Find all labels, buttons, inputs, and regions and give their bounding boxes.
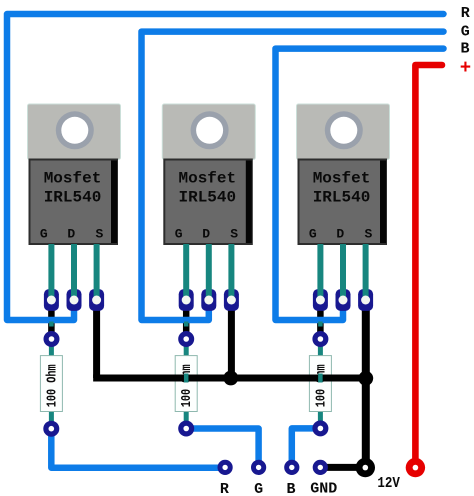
mosfet Q3 IRL540 [297,104,390,244]
pin M2 G [183,244,189,300]
resistor lead over bus R3 [318,374,323,383]
round pad R1 bottom [43,421,59,437]
svg-text:B: B [460,40,469,57]
hole pad M2 D [204,296,213,305]
pad M1 pin D [67,289,82,311]
resistor lead fleck over blue M1 [49,322,54,327]
hole pad M1 G [47,296,56,305]
wire blue G: top rail to M2 drain [142,32,444,320]
svg-text:G: G [40,227,48,242]
wire black source M3 down to 12V ground terminal [362,300,370,468]
svg-text:Mosfet: Mosfet [44,170,102,188]
svg-text:G: G [309,227,317,242]
Q3 package body [299,160,387,245]
round pad R3 bottom [312,420,328,436]
junction ground bus / M3 source [358,371,373,386]
pad M2 pin S [224,289,239,311]
svg-text:R: R [461,5,470,22]
round pad R3 top [312,331,328,347]
Q2 body edge stripe [246,161,252,244]
terminal 12V ground [356,458,375,477]
svg-text:D: D [67,227,75,242]
pin M3 D [340,244,346,300]
pin M2 D [206,244,212,300]
mosfet Q2 IRL540 [162,104,255,244]
svg-text:12V: 12V [377,475,400,492]
svg-text:GND: GND [310,481,337,496]
resistor lead fleck over blue M2 [184,322,189,327]
Q1 mounting hole [56,111,94,149]
hole pad M3 G [316,296,325,305]
svg-text:G: G [175,227,183,242]
round pad R2 bottom [178,421,194,437]
svg-text:Mosfet: Mosfet [178,170,236,188]
wire red +12V [415,65,442,468]
terminal R [218,458,426,477]
svg-text:100 Ohm: 100 Ohm [179,364,195,407]
svg-text:+: + [460,57,471,79]
pin M3 S [363,244,369,300]
wire ground bus [93,375,366,382]
wire blue G gate: resistor R2 to G terminal [186,429,258,468]
mosfet Q1 IRL540 [28,104,121,244]
svg-text:D: D [202,227,210,242]
svg-text:B: B [286,481,295,496]
svg-text:IRL540: IRL540 [178,188,236,206]
svg-text:100 Ohm: 100 Ohm [44,364,60,407]
resistor R1 [40,332,62,434]
terminal GND [313,460,328,475]
wire blue B gate: resistor R3 to B terminal [292,428,321,467]
Q2 package body [164,160,252,245]
pad M3 pin D [336,289,351,311]
pin M1 G [48,244,54,300]
Q3 metal tab [297,104,390,160]
wire black gate stub M3 [317,300,324,339]
wire black gate stub M2 [183,300,190,339]
hole pad M1 D [70,296,79,305]
wire black source M1 to ground bus [93,300,100,378]
Q1 metal tab [28,104,121,160]
Q3 body edge stripe [380,161,386,244]
Q1 body edge stripe [111,161,117,244]
wire black GND terminal to 12V ground [320,464,365,471]
svg-text:S: S [230,227,238,242]
svg-text:D: D [336,227,344,242]
svg-text:S: S [364,227,372,242]
pad M2 pin D [201,289,216,311]
svg-text:R: R [220,481,229,496]
terminal G [251,460,266,475]
wire black gate stub M1 (pad G to resistor R1) [51,300,320,339]
svg-text:G: G [461,24,470,41]
svg-text:100 Ohm: 100 Ohm [313,364,329,407]
hole pad M3 S [361,296,370,305]
svg-text:IRL540: IRL540 [44,188,102,206]
pad M3 pin S [358,289,373,311]
pad M2 pin G [179,289,194,311]
svg-text:S: S [95,227,103,242]
Q1 package body [30,160,118,245]
pad M1 pin G [44,289,373,311]
pin M2 S [228,244,234,300]
wire black source M2 to ground bus [228,300,235,378]
Q2 mounting hole [191,111,229,149]
Q2 metal tab [162,104,255,160]
svg-text:IRL540: IRL540 [313,188,371,206]
round pad R1 top [43,331,328,437]
resistor lead over bus R2 [184,374,189,383]
terminal +12V [406,458,425,477]
pin M3 G [317,244,323,300]
pin M1 S [94,244,100,300]
pin M1 D [71,244,77,300]
Q3 mounting hole [325,111,363,149]
wire blue R gate: resistor R1 to R terminal [51,429,225,468]
round pad R2 top [178,331,194,347]
hole pad M3 D [339,296,348,305]
junction ground bus / M2 source [223,371,238,386]
terminal B [284,460,299,475]
resistor R3 [309,332,331,434]
wire blue B: top rail to M3 drain [276,49,444,320]
resistor R2 [175,332,197,434]
svg-text:Mosfet: Mosfet [313,170,371,188]
pad M1 pin S [89,289,104,311]
pad M3 pin G [313,289,328,311]
svg-text:G: G [254,481,263,496]
hole pad M2 G [182,296,191,305]
resistor lead fleck over blue M3 [318,322,323,327]
hole pad M1 S [92,296,101,305]
hole pad M2 S [227,296,236,305]
